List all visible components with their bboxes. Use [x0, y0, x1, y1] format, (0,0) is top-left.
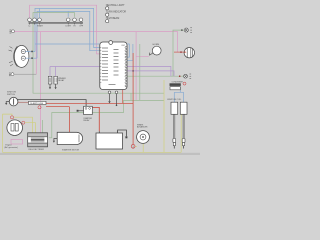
svg-text:TURN INDICATOR: TURN INDICATOR [106, 10, 127, 13]
starter relay [84, 106, 93, 114]
unit right pins [125, 47, 127, 87]
switch R circle 1 [66, 18, 70, 22]
wire black relay ground [78, 110, 84, 112]
svg-text:RELAY: RELAY [58, 79, 65, 82]
switch L circle 1 [28, 18, 32, 22]
wire green rectifier pin [42, 120, 44, 133]
wire black unit ground left pin [109, 94, 111, 101]
reg rectifier [28, 133, 48, 147]
wire green x139.8 [139, 44, 141, 100]
engine pink pickup box [11, 140, 23, 145]
wire red switch to fuse [18, 101, 29, 103]
wire blue switch light stub [39, 8, 41, 17]
spark advancer circle [137, 123, 150, 143]
tail light bulb [181, 29, 183, 31]
starter motor [57, 132, 82, 144]
wire pink long y31.6 [15, 32, 178, 75]
wire yellow engine to rectifier [14, 117, 36, 133]
wire green switch loop long [33, 13, 164, 94]
wire blue x132.9 [127, 44, 133, 60]
position light bulb [9, 73, 36, 76]
wire black ignition long to relay [17, 100, 87, 108]
svg-text:ADVANCER: ADVANCER [137, 126, 148, 129]
svg-text:CONDENSER: CONDENSER [172, 81, 184, 83]
svg-text:HORN: HORN [153, 44, 160, 46]
svg-text:LIGHT: LIGHT [66, 25, 72, 27]
fuse right label [170, 83, 181, 86]
fuse right body [170, 87, 180, 90]
red circled 1 [131, 144, 135, 148]
wire purple winker run [50, 67, 171, 77]
svg-text:REG RECTIFIER: REG RECTIFIER [29, 149, 45, 151]
wire red long y103.4 [46, 102, 133, 104]
unit interior text rows [102, 48, 119, 85]
wire blue headlight lo [37, 11, 100, 58]
unit left pins [100, 48, 102, 83]
switch L circle 2 [33, 18, 37, 22]
wire yellow right column [3, 80, 182, 152]
winker relay 2 [54, 76, 58, 84]
battery [96, 133, 123, 149]
ignition switch [9, 97, 18, 106]
wire red brake light [174, 51, 184, 53]
unit bottom pins [108, 91, 111, 94]
ignition switch ground [6, 102, 9, 103]
ignition coil 2 [180, 102, 187, 114]
svg-text:(AC generator): (AC generator) [5, 146, 19, 149]
wire green tail light [127, 30, 184, 76]
main fuse [29, 101, 47, 104]
spark plug 2 [182, 139, 185, 149]
wire black plug wires [174, 114, 183, 138]
ignition coil 1 [171, 102, 178, 114]
svg-text:STARTER MOTOR: STARTER MOTOR [62, 148, 80, 151]
wire purple unit to license [127, 71, 174, 76]
wire yellow engine left [3, 114, 13, 152]
svg-text:IGNITION COIL: IGNITION COIL [167, 99, 182, 101]
svg-text:NEUTRAL LIGHT: NEUTRAL LIGHT [106, 4, 125, 7]
wire blue fuse to coils [174, 90, 183, 102]
speedometer light bulb [10, 30, 15, 33]
wire red y106.6 starter [46, 107, 69, 133]
svg-text:SWITCH: SWITCH [7, 94, 15, 96]
wire blue y44 right pins [35, 44, 129, 57]
wire yellow cdi link [135, 145, 137, 147]
wire blue headlight hi [35, 8, 100, 51]
spark plug 1 [173, 139, 176, 149]
engine AC generator [7, 120, 23, 136]
wire pink switch to unit top [30, 5, 100, 54]
wire black unit pin drop [116, 94, 118, 105]
svg-text:RELAY: RELAY [83, 119, 90, 122]
handlebar switch bar [29, 22, 84, 23]
wire black starter ground [54, 139, 57, 141]
wire black battery ground [118, 130, 127, 136]
red circle symbols engine [10, 116, 13, 119]
wire red cdi drop [132, 53, 134, 144]
wire green rectifier to coils run [49, 93, 164, 138]
control unit box [100, 41, 127, 90]
svg-text:START: START [37, 24, 44, 27]
switch R circle 3 [79, 18, 83, 22]
winker relay grounds [50, 84, 56, 87]
headlight [9, 45, 38, 67]
switch L circle 3 [38, 18, 42, 22]
wire pink vertical x40.5 to rectifier [40, 32, 42, 133]
switch R circle 2 [73, 18, 77, 22]
wire red relay to battery [92, 107, 99, 131]
wire red unit drop [122, 90, 124, 104]
license light bulb [179, 74, 191, 78]
wire blue switch stub [67, 11, 69, 16]
brake light unit [184, 48, 194, 58]
svg-text:10 AMP FUSE: 10 AMP FUSE [30, 102, 44, 105]
wire pink to horn [136, 32, 149, 101]
winker relay 1 [48, 76, 52, 84]
